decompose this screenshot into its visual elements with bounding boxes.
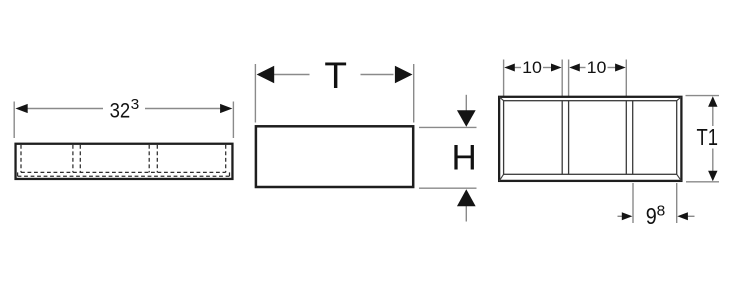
dimension line 32/3 right segment xyxy=(145,108,222,110)
hidden edge vertical 4 xyxy=(148,145,150,173)
hidden edge connector right xyxy=(229,172,231,176)
arrowhead top of dim T1 xyxy=(708,96,717,107)
arrowhead bottom of dim H xyxy=(457,189,476,206)
divider rib line 1b xyxy=(568,101,570,175)
body outline left view xyxy=(16,144,233,179)
arrowhead left of second dim 10 xyxy=(569,64,580,72)
dimension line 9/8 left tail xyxy=(618,215,623,217)
svg-text:H: H xyxy=(452,138,477,177)
hidden edge horizontal lower xyxy=(18,175,230,177)
hidden edge connector left xyxy=(17,172,19,176)
dimension line second 10 left segment xyxy=(578,67,586,69)
chamfer top-right xyxy=(677,97,682,101)
arrowhead top of dim H xyxy=(457,110,476,127)
arrowhead right of dim 32/3 xyxy=(220,104,232,113)
extension line left of dim 32/3 xyxy=(13,102,15,139)
svg-text:T1: T1 xyxy=(697,124,719,150)
arrowhead right of dim 9/8 xyxy=(677,212,688,220)
svg-text:9: 9 xyxy=(646,203,657,229)
dimension line second 10 right segment xyxy=(608,67,617,69)
body outline middle view xyxy=(256,126,413,187)
svg-text:10: 10 xyxy=(587,59,607,77)
chamfer top-left xyxy=(499,97,503,101)
dimension line T1 upper segment xyxy=(712,106,714,127)
extension line right of dim 9/8 xyxy=(676,183,678,223)
extension line left of dim T xyxy=(254,64,256,123)
svg-text:3: 3 xyxy=(131,96,140,113)
dimension line first 10 right segment xyxy=(543,67,552,69)
extension line left of first dim 10 xyxy=(503,60,505,102)
extension line left of second dim 10 xyxy=(568,60,570,102)
extension line bottom of dim T1 xyxy=(686,181,719,183)
svg-text:8: 8 xyxy=(657,202,666,219)
hidden edge vertical 2 xyxy=(72,145,74,173)
dimension line first 10 left segment xyxy=(513,67,521,69)
extension line top of dim H xyxy=(419,126,477,128)
dimension line 32/3 left segment xyxy=(26,108,103,110)
svg-text:T: T xyxy=(324,55,347,96)
extension line right of first dim 10 xyxy=(561,60,563,102)
svg-text:32: 32 xyxy=(110,99,131,123)
arrowhead left of first dim 10 xyxy=(504,64,515,72)
dimension line T right segment xyxy=(361,74,394,76)
extension line right of second dim 10 xyxy=(625,60,627,102)
dimension line T left segment xyxy=(272,74,310,76)
inner face outline right view xyxy=(504,101,677,175)
hidden edge horizontal upper xyxy=(21,171,226,173)
hidden edge vertical 6 xyxy=(225,145,227,173)
svg-text:10: 10 xyxy=(522,59,542,77)
dimension line H lower segment xyxy=(465,206,467,222)
hidden edge vertical 3 xyxy=(79,145,81,173)
arrowhead bottom of dim T1 xyxy=(708,171,717,182)
hidden edge vertical 5 xyxy=(156,145,158,173)
chamfer bottom-left xyxy=(499,174,503,181)
divider rib line 2b xyxy=(632,101,634,175)
extension line right of dim 32/3 xyxy=(232,102,234,139)
arrowhead right of first dim 10 xyxy=(551,64,562,72)
extension line right of dim T xyxy=(413,64,415,123)
body outline right view xyxy=(499,97,681,181)
arrowhead right of dim T xyxy=(395,66,413,84)
arrowhead left of dim T xyxy=(257,66,275,84)
arrowhead left of dim 32/3 xyxy=(15,104,27,113)
divider rib line 1a xyxy=(561,101,563,175)
dimension line T1 lower segment xyxy=(712,149,714,173)
divider rib line 2a xyxy=(625,101,627,175)
extension line left of dim 9/8 xyxy=(632,183,634,223)
hidden edge vertical 1 xyxy=(20,145,22,173)
extension line top of dim T1 xyxy=(686,95,720,97)
extension line bottom of dim H xyxy=(419,187,477,189)
dimension line H upper segment xyxy=(465,95,467,112)
arrowhead right of second dim 10 xyxy=(615,64,626,72)
dimension line 9/8 right tail xyxy=(688,215,695,217)
arrowhead left of dim 9/8 xyxy=(622,212,633,220)
chamfer bottom-right xyxy=(677,174,682,181)
